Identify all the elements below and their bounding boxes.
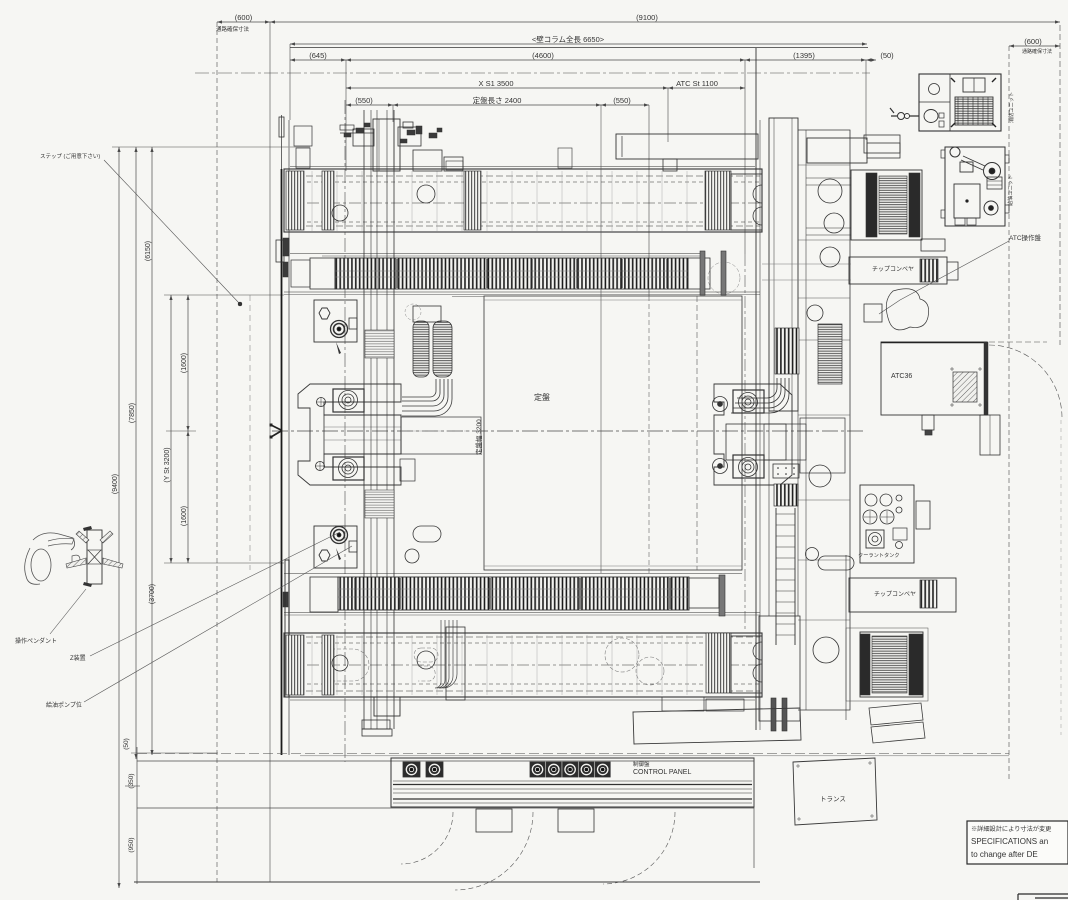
dashed housing boundary right of table xyxy=(696,296,698,570)
left edge top step xyxy=(279,117,284,137)
coolant tank unit xyxy=(860,485,914,563)
transformer box xyxy=(793,758,877,825)
tower above beam xyxy=(373,119,400,171)
partial title block bottom right xyxy=(1018,894,1068,900)
beam segment verticals xyxy=(311,171,313,231)
svg-text:トランス: トランス xyxy=(820,795,846,803)
svg-text:チップコンベヤ: チップコンベヤ xyxy=(874,591,916,598)
conveyor lines behind column xyxy=(762,263,851,265)
rail hatch segments xyxy=(365,330,394,358)
svg-text:(50): (50) xyxy=(880,51,894,60)
svg-text:(9400): (9400) xyxy=(112,474,119,494)
dim (1600) lower xyxy=(187,431,189,563)
conveyor motor box xyxy=(921,239,945,251)
left edge dark blocks xyxy=(283,238,289,256)
floor line solid xyxy=(137,760,754,762)
operator arm xyxy=(48,538,74,546)
oblong hole lower body xyxy=(413,526,441,542)
horizontal centerline y73 dash-dot xyxy=(195,72,870,74)
piping elbows xyxy=(402,379,452,416)
ladder chain down xyxy=(775,508,777,645)
svg-text:給油ポンプ位: 給油ポンプ位 xyxy=(46,701,82,709)
oil unit pump circle top-left xyxy=(950,147,960,157)
extension verticals from top dims xyxy=(289,44,291,120)
svg-text:SPECIFICATIONS an: SPECIFICATIONS an xyxy=(971,837,1048,846)
second pipe bundle xyxy=(775,328,799,374)
dim X St 3500 xyxy=(346,87,668,89)
extension line x217 dashed xyxy=(216,22,218,882)
lower beam hole circles xyxy=(417,651,435,669)
column right body outline xyxy=(798,130,850,710)
svg-text:制御盤: 制御盤 xyxy=(633,760,650,768)
ram head top right xyxy=(616,134,758,159)
oil unit belt diagonal xyxy=(961,156,985,170)
chip conveyor upper-right body xyxy=(849,257,947,284)
ladder rungs xyxy=(776,513,795,515)
svg-text:CONTROL PANEL: CONTROL PANEL xyxy=(633,769,691,776)
parts right of tower xyxy=(398,127,421,146)
svg-text:(950): (950) xyxy=(128,837,135,852)
lower beam right hatch xyxy=(706,633,731,693)
beam right hatch xyxy=(705,171,731,230)
pendant handles xyxy=(76,531,89,543)
cabinet grille cross-hatched xyxy=(955,97,993,125)
lower conveyor right section xyxy=(689,578,719,608)
beam hole circle xyxy=(417,185,435,203)
pendant body xyxy=(87,530,102,584)
column lightening holes xyxy=(818,179,842,203)
dim (7850) vertical xyxy=(135,147,137,759)
dim Y St 3200 xyxy=(170,295,172,563)
column segment lines xyxy=(798,164,850,166)
oil pump unit upper xyxy=(314,300,357,342)
right column main rail xyxy=(769,118,798,411)
svg-text:Z装置: Z装置 xyxy=(70,654,86,662)
center tick y431 left dims xyxy=(166,430,196,432)
lower conveyor right post xyxy=(719,575,725,616)
upper conveyor right end xyxy=(688,258,710,289)
control panel louver lines xyxy=(393,780,752,782)
floor line dashed xyxy=(137,753,1009,755)
operator head xyxy=(31,549,51,581)
ATC axis dash-dot x745 xyxy=(744,254,746,632)
ATC36 right hanging rect xyxy=(980,415,1000,455)
control panel fans left pair xyxy=(403,762,420,777)
svg-text:ATC St 1100: ATC St 1100 xyxy=(676,79,718,88)
tilted blocks below ATC xyxy=(869,703,923,725)
motor box left of tower xyxy=(353,129,374,146)
dark hardware bits above beam xyxy=(356,128,364,133)
svg-text:給油ユニット: 給油ユニット xyxy=(1006,175,1014,206)
floor line thin xyxy=(300,755,1009,757)
svg-text:(7850): (7850) xyxy=(129,403,136,423)
ATC magazine lower xyxy=(860,632,923,697)
svg-text:(50): (50) xyxy=(123,738,130,750)
extension line x270 xyxy=(269,22,271,882)
lower chip conveyor hatch band xyxy=(338,577,689,610)
svg-text:操作ペンダント: 操作ペンダント xyxy=(15,637,57,645)
ghost circle near table top right xyxy=(708,262,740,294)
table surface plate outline xyxy=(484,296,742,570)
small valve box xyxy=(400,459,415,481)
svg-text:X S1 3500: X S1 3500 xyxy=(478,79,513,88)
dim row y105: (550) 2400 (550) xyxy=(346,104,393,106)
upper conveyor posts xyxy=(700,251,705,295)
oil temp unit outline xyxy=(945,147,1005,226)
cable chain hatched xyxy=(818,324,842,384)
dim (9100) overall width xyxy=(270,21,1060,23)
ATC36 enclosure box xyxy=(881,342,987,415)
chip chute blob xyxy=(886,289,928,330)
lower ATC dashed outline xyxy=(846,628,928,701)
svg-text:※詳細設計により寸法が変更: ※詳細設計により寸法が変更 xyxy=(971,825,1051,833)
svg-text:(1600): (1600) xyxy=(181,506,188,526)
svg-text:(1395): (1395) xyxy=(793,51,815,60)
svg-text:to change after DE: to change after DE xyxy=(971,850,1038,859)
lower beam ghost contours xyxy=(331,649,369,681)
dim row y60: (645)(4600)(1395)(50) xyxy=(290,59,346,61)
extension dashed x1060 page edge xyxy=(1059,25,1061,345)
specification note box xyxy=(967,821,1068,864)
oil unit motor block xyxy=(960,162,973,172)
bolt plate with dots xyxy=(773,464,799,478)
upper conveyor dark posts xyxy=(351,259,353,288)
cabinet right top small rect xyxy=(963,78,985,92)
machine left edge lines xyxy=(281,169,283,755)
cabinet left top cell with circle xyxy=(919,101,950,103)
pendant leader xyxy=(50,589,86,634)
svg-text:(600): (600) xyxy=(235,13,253,22)
column right outer line xyxy=(845,555,847,720)
lower conveyor dark posts xyxy=(354,578,356,609)
left dim tick lines xyxy=(112,146,310,148)
right saddle body xyxy=(726,424,786,460)
svg-text:通路確保寸法: 通路確保寸法 xyxy=(216,25,250,33)
svg-text:ATC36: ATC36 xyxy=(891,373,912,380)
dim (9400) vertical xyxy=(118,147,120,888)
step leader line with dot xyxy=(104,160,239,303)
dim wall column length 6650 xyxy=(290,43,867,45)
dim (600) top-left passage xyxy=(217,21,270,23)
control panel right wall line xyxy=(753,758,755,868)
lower conveyor left end block xyxy=(310,577,338,612)
beam hatch x322 xyxy=(322,171,334,230)
svg-text:(4600): (4600) xyxy=(532,51,554,60)
cabinet corner marks xyxy=(951,78,996,127)
oil unit gauge rect xyxy=(987,177,1002,189)
left saddle small bolt circles xyxy=(317,398,326,407)
svg-text:定盤: 定盤 xyxy=(534,392,550,402)
svg-text:<壁コラム全長 6650>: <壁コラム全長 6650> xyxy=(532,34,605,44)
left saddle bearing top xyxy=(333,389,364,412)
column oblong hole xyxy=(818,556,854,570)
small box left of ram xyxy=(558,148,572,168)
dim (1600) upper xyxy=(187,295,189,431)
svg-text:(9100): (9100) xyxy=(636,13,658,22)
dashed vertical x250 xyxy=(249,295,251,570)
upper chip conveyor hatch band xyxy=(335,258,688,289)
svg-text:(600): (600) xyxy=(1024,37,1042,46)
column vertical centerline x345 xyxy=(344,100,346,762)
bottom-left dims (50)(350)(950) xyxy=(136,747,138,884)
pendant end marks xyxy=(83,526,92,587)
door swing arcs xyxy=(401,812,453,864)
left saddle bearing bottom xyxy=(333,457,364,480)
beam left hatch block xyxy=(286,171,304,230)
ATC36 door swing arc xyxy=(989,345,1062,417)
pipe hatch block xyxy=(774,484,798,506)
oblong hole upper xyxy=(413,306,441,322)
ATC magazine upper xyxy=(806,177,851,179)
floor line lower xyxy=(137,807,754,809)
electrical cabinet outline xyxy=(919,74,1001,131)
operator body shoulder arc xyxy=(25,533,75,584)
Y axis rail tower verticals xyxy=(363,110,365,729)
svg-text:(550): (550) xyxy=(613,96,631,105)
dim (600) top-right xyxy=(1009,45,1060,47)
oil unit bottom circle xyxy=(984,201,998,215)
pipe cluster left of foundation xyxy=(446,627,465,700)
svg-text:(1600): (1600) xyxy=(181,353,188,373)
svg-text:(Y St 3200): (Y St 3200) xyxy=(164,447,171,482)
right saddle outline xyxy=(714,384,792,485)
column left edge lines xyxy=(755,48,757,730)
right saddle bolt circles xyxy=(713,397,728,412)
oil unit tank xyxy=(954,184,980,218)
svg-text:(6150): (6150) xyxy=(145,241,152,261)
left saddle body rect xyxy=(324,415,401,454)
ATC arm parts xyxy=(864,135,900,153)
foundation block xyxy=(633,708,801,744)
upper-left corner cabinet xyxy=(294,126,312,146)
svg-text:クーラントタンク: クーラントタンク xyxy=(858,551,900,559)
control panel fan bank of five xyxy=(530,762,545,777)
ATC36 hatched pallet xyxy=(953,372,977,402)
dim ATC St 1100 xyxy=(668,87,745,89)
lower bed beam body xyxy=(284,633,762,697)
control panel feet xyxy=(476,809,512,832)
coolant side rect xyxy=(916,501,930,529)
column bottom structure xyxy=(759,616,800,721)
step rects center bottom xyxy=(662,697,704,711)
rail bottom foot xyxy=(374,697,400,716)
beam middle hatch xyxy=(464,171,481,230)
svg-text:(550): (550) xyxy=(355,96,373,105)
pipe elbows from bundle xyxy=(731,378,789,413)
enclosure dashes to right xyxy=(989,341,1047,343)
left saddle outline xyxy=(298,384,401,485)
cable hose bundle xyxy=(413,321,429,377)
lower beam end cap xyxy=(731,636,762,693)
svg-text:消防ユニット: 消防ユニット xyxy=(1007,92,1015,123)
svg-text:(350): (350) xyxy=(128,773,135,788)
svg-text:ATC操作盤: ATC操作盤 xyxy=(1009,233,1042,242)
dim (6150)+(3700) vertical line xyxy=(151,147,153,755)
upper conveyor left end block xyxy=(310,258,335,289)
lower beam left hatch xyxy=(286,635,304,695)
oil unit feet xyxy=(955,218,965,225)
beam right end cap with half-holes xyxy=(731,174,762,230)
svg-text:定盤幅 3200: 定盤幅 3200 xyxy=(474,419,483,455)
machine top outline xyxy=(290,47,868,49)
cabinet left bottom cell xyxy=(924,110,938,123)
svg-text:通路確保寸法: 通路確保寸法 xyxy=(1022,48,1052,55)
svg-text:チップコンベヤ: チップコンベヤ xyxy=(872,266,914,273)
extension dashed x1009 xyxy=(1008,46,1010,782)
oil pump unit lower xyxy=(314,526,357,568)
X-axis bed beam body xyxy=(284,169,762,232)
ATC36 foot blocks xyxy=(922,415,934,430)
svg-text:ステップ (ご用意下さい): ステップ (ご用意下さい) xyxy=(40,152,100,160)
oil unit pulley xyxy=(984,163,1001,180)
right saddle bearing bottom xyxy=(733,455,764,478)
operator hand xyxy=(72,555,80,565)
right saddle bearing top xyxy=(733,390,764,413)
control panel outline xyxy=(391,758,754,807)
lower beam segment verticals xyxy=(311,635,313,695)
svg-text:定盤長さ 2400: 定盤長さ 2400 xyxy=(473,95,522,105)
left ram nose to table xyxy=(401,417,481,454)
cabinet door handle valve xyxy=(905,114,910,119)
svg-text:(645): (645) xyxy=(309,51,327,60)
main centerline y431 dash-dot with arrow xyxy=(272,430,865,432)
svg-text:(3700): (3700) xyxy=(149,584,156,604)
step blocks on beam top xyxy=(413,150,442,171)
